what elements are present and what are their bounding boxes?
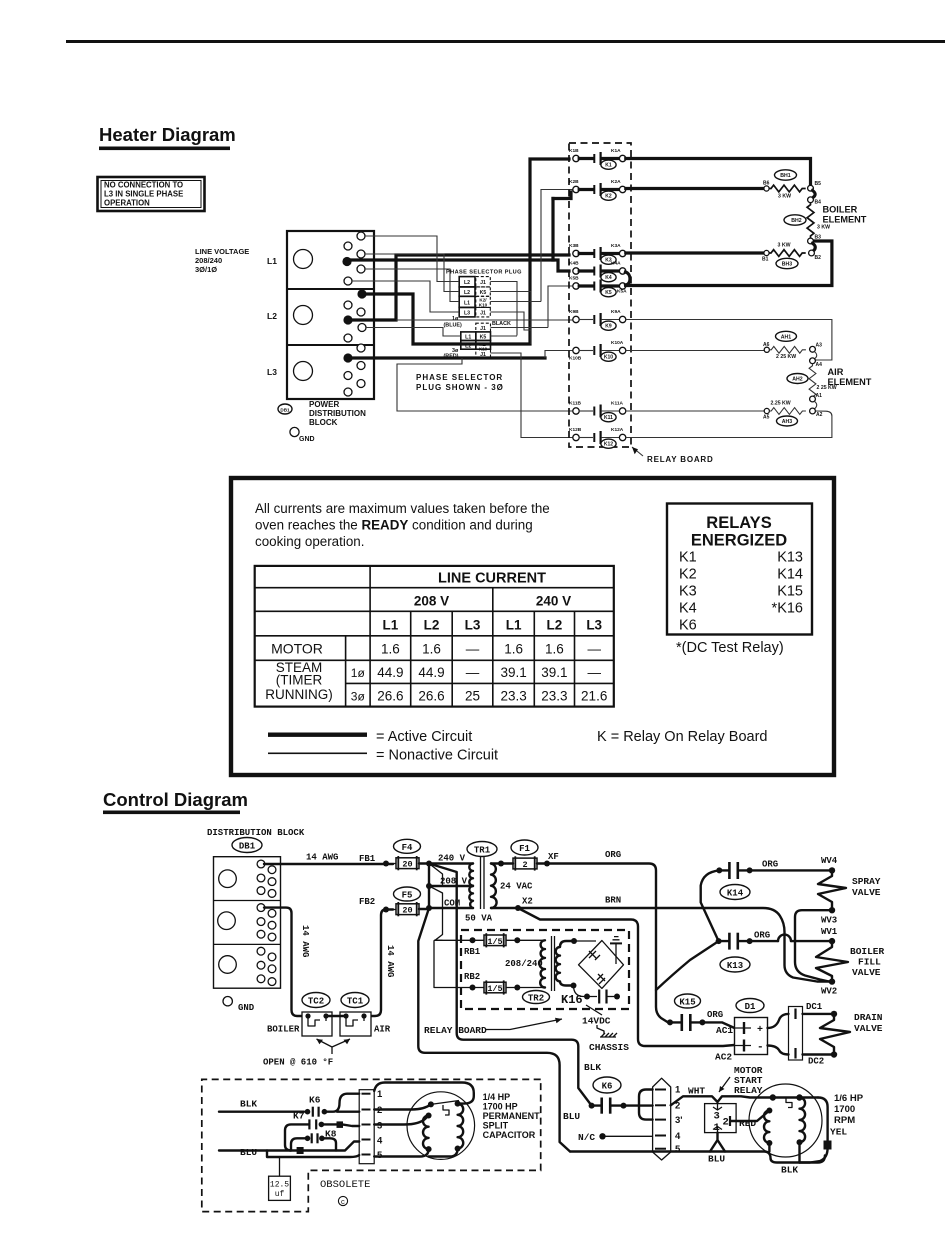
node B1	[764, 250, 769, 255]
svg-text:BLU: BLU	[708, 1154, 725, 1165]
svg-text:1ø: 1ø	[351, 666, 366, 680]
big framed table box	[231, 478, 834, 775]
svg-text:2: 2	[522, 860, 527, 870]
svg-text:K4B: K4B	[569, 261, 579, 267]
resistor AH3	[769, 401, 806, 427]
svg-text:K2A: K2A	[611, 179, 621, 185]
svg-text:-: -	[757, 1042, 764, 1054]
svg-text:L1: L1	[465, 335, 471, 341]
resistor AH2 vertical	[787, 364, 837, 401]
svg-text:K13: K13	[777, 550, 803, 566]
ground GND control	[223, 997, 255, 1014]
svg-text:RB1: RB1	[464, 947, 481, 957]
obsolete motor top loop	[374, 1083, 474, 1104]
fuse RB1	[464, 933, 545, 957]
svg-text:K10A: K10A	[611, 340, 624, 346]
svg-text:5: 5	[675, 1144, 681, 1155]
svg-text:K15: K15	[777, 584, 803, 600]
obsolete start winding	[423, 1113, 432, 1153]
jumper K4A to K5A thick arc	[626, 272, 631, 285]
junction FB2	[383, 907, 389, 913]
svg-text:DB1: DB1	[239, 842, 256, 852]
label boiler fill valve	[850, 946, 885, 978]
steam timer running label	[265, 660, 333, 702]
label 1/6 HP 1700 RPM	[834, 1093, 864, 1126]
node A3	[810, 346, 816, 352]
svg-text:—: —	[587, 642, 601, 657]
svg-text:3: 3	[377, 1121, 382, 1132]
svg-text:K9: K9	[605, 324, 612, 330]
svg-text:A3: A3	[816, 343, 823, 349]
obsolete blade and dot	[428, 1101, 459, 1116]
wire BLU obsolete with square to pin4	[219, 1142, 359, 1151]
resistor BH1	[769, 170, 806, 200]
wire X2 branch to AC2	[518, 908, 735, 1046]
run winding	[797, 1098, 806, 1146]
svg-text:L2: L2	[464, 280, 470, 286]
relays energized box	[667, 504, 812, 635]
svg-text:K13: K13	[727, 961, 743, 971]
svg-text:K5B: K5B	[569, 276, 579, 282]
node DC2	[831, 1051, 837, 1057]
jumper pins 1-3	[639, 1090, 653, 1120]
svg-text:208/240: 208/240	[195, 256, 222, 265]
svg-text:AIR: AIR	[374, 1025, 391, 1035]
svg-text:D1: D1	[745, 1002, 756, 1012]
wire K7 left drop	[285, 1124, 309, 1150]
relay contact K3	[569, 243, 626, 264]
svg-text:PHASE SELECTOR PLUG: PHASE SELECTOR PLUG	[446, 270, 522, 276]
svg-text:B3: B3	[815, 235, 822, 241]
svg-text:RPM: RPM	[834, 1115, 855, 1126]
svg-text:RELAY: RELAY	[734, 1085, 763, 1096]
svg-text:240 V: 240 V	[536, 594, 571, 609]
label spray valve	[852, 876, 881, 898]
svg-text:NO CONNECTION TO: NO CONNECTION TO	[104, 181, 183, 190]
svg-text:23.3: 23.3	[541, 689, 567, 704]
svg-text:F1: F1	[519, 844, 530, 854]
wire K12A thin return	[626, 411, 832, 438]
svg-text:K6: K6	[309, 1095, 321, 1106]
svg-text:2: 2	[723, 1117, 729, 1129]
relay K6 oval	[593, 1077, 621, 1093]
svg-text:DB1: DB1	[280, 407, 290, 412]
wire N/C to pin4	[603, 1135, 653, 1137]
svg-text:SPRAY: SPRAY	[852, 876, 881, 887]
node A5	[764, 408, 769, 413]
PDB terminal circles L3 section	[343, 344, 365, 396]
svg-text:L3: L3	[586, 618, 602, 633]
svg-text:*(DC Test Relay): *(DC Test Relay)	[676, 640, 784, 656]
wire K11A thin to A5	[626, 410, 765, 412]
BLU bottom bus	[570, 1152, 825, 1163]
svg-text:ORG: ORG	[754, 931, 770, 941]
svg-text:L1: L1	[383, 618, 399, 633]
motor start relay box	[705, 1104, 737, 1134]
node A1	[810, 396, 816, 402]
svg-text:K10: K10	[479, 347, 488, 352]
svg-text:K16: K16	[561, 993, 583, 1007]
svg-text:All currents are maximum value: All currents are maximum values taken be…	[255, 501, 550, 516]
leader K16 to 14VDC	[586, 1005, 602, 1015]
svg-text:1700 HP: 1700 HP	[483, 1102, 518, 1112]
wire K13 feed from ORG	[656, 941, 719, 990]
relay contact K12	[569, 427, 626, 448]
wire 208 tap to RB1	[429, 886, 470, 940]
svg-text:K5: K5	[605, 290, 612, 296]
svg-text:K2: K2	[679, 567, 697, 583]
fuse F5	[393, 887, 421, 916]
svg-text:MOTOR: MOTOR	[271, 641, 323, 657]
svg-text:39.1: 39.1	[500, 665, 526, 680]
svg-text:*K16: *K16	[772, 601, 803, 617]
relay K15 oval	[675, 994, 701, 1008]
svg-text:K4: K4	[679, 601, 697, 617]
svg-text:ELEMENT: ELEMENT	[828, 377, 872, 387]
svg-text:= Nonactive Circuit: = Nonactive Circuit	[376, 748, 498, 764]
svg-text:WV1: WV1	[821, 927, 838, 937]
svg-text:B5: B5	[815, 181, 822, 187]
label 3-phase red	[444, 348, 459, 360]
svg-text:20: 20	[402, 906, 412, 916]
svg-text:AH3: AH3	[782, 419, 792, 425]
svg-text:K11: K11	[604, 415, 613, 421]
phase selector plug upper connector J1	[459, 277, 490, 317]
svg-text:K1: K1	[679, 550, 697, 566]
label RELAY BOARD control with arrow	[424, 1018, 562, 1036]
bridge D1	[735, 999, 768, 1055]
svg-text:TR2: TR2	[528, 994, 544, 1004]
svg-text:DRAIN: DRAIN	[854, 1012, 883, 1023]
svg-text:ELEMENT: ELEMENT	[823, 215, 867, 225]
wire TC2 to TC1	[328, 1015, 344, 1017]
svg-text:K1A: K1A	[611, 148, 621, 154]
DB1 terminals section1	[257, 860, 276, 897]
svg-text:K1B: K1B	[569, 148, 579, 154]
node DC1	[831, 1011, 837, 1017]
note box: no connection to L3	[98, 177, 205, 211]
svg-text:(RED): (RED)	[444, 354, 459, 360]
wire lower plug right stubs (BLACK)	[491, 327, 549, 329]
node WV4	[829, 867, 835, 873]
relay contact K6 obsolete	[305, 1095, 328, 1117]
svg-text:J1: J1	[480, 326, 486, 332]
wire DC1 from D1	[768, 1014, 789, 1028]
svg-text:14VDC: 14VDC	[582, 1016, 611, 1027]
wire thin K2B feed	[541, 190, 573, 302]
wire K6 to pins 1 and 2	[324, 1094, 359, 1112]
svg-text:CHASSIS: CHASSIS	[589, 1042, 629, 1053]
relay contact K6 active	[589, 1098, 627, 1114]
filter capacitor on bridge	[610, 937, 622, 964]
wire K2B thick elbow	[553, 192, 571, 199]
svg-text:K10B: K10B	[569, 356, 582, 362]
resistor BH3	[769, 243, 806, 269]
svg-text:K4A: K4A	[611, 261, 621, 267]
wire A1-A2 link	[814, 401, 816, 409]
drain connector	[789, 1007, 803, 1061]
thermostat TC2	[302, 993, 332, 1037]
junction XF left	[498, 861, 504, 867]
svg-text:= Active Circuit: = Active Circuit	[376, 729, 472, 745]
wire K8 left to BLU	[291, 1138, 308, 1150]
wire BRN from X2 to valve common	[518, 908, 829, 982]
svg-text:AC1: AC1	[716, 1025, 733, 1036]
svg-text:TC1: TC1	[347, 997, 364, 1007]
svg-text:1/5: 1/5	[487, 937, 502, 947]
svg-text:24 VAC: 24 VAC	[500, 882, 533, 892]
svg-text:26.6: 26.6	[418, 689, 444, 704]
relay contact K5	[569, 276, 627, 297]
node B3	[808, 238, 814, 244]
svg-text:CAPACITOR: CAPACITOR	[483, 1130, 536, 1140]
svg-text:1.6: 1.6	[504, 642, 523, 657]
svg-text:VALVE: VALVE	[852, 967, 881, 978]
svg-text:DISTRIBUTION BLOCK: DISTRIBUTION BLOCK	[207, 828, 305, 838]
svg-text:1.6: 1.6	[422, 642, 441, 657]
motor top junctions	[770, 1094, 776, 1100]
wire DC2 from D1	[768, 1046, 789, 1055]
svg-text:4: 4	[675, 1131, 681, 1142]
wire L3 thick run	[352, 356, 545, 359]
obsolete motor circle	[407, 1092, 475, 1160]
svg-text:21.6: 21.6	[581, 689, 607, 704]
svg-text:ORG: ORG	[605, 850, 621, 860]
label 1-phase blue	[444, 316, 462, 329]
junction X2	[515, 905, 521, 911]
wire ORG main from XF to K15	[501, 864, 668, 1023]
svg-text:BOILER: BOILER	[823, 205, 858, 215]
wire 240 tap to RB2 riser	[429, 864, 470, 988]
svg-text:ENERGIZED: ENERGIZED	[691, 532, 787, 550]
junction 240V	[426, 861, 432, 867]
svg-text:BH1: BH1	[780, 173, 790, 179]
svg-text:A5: A5	[763, 415, 770, 421]
wire K6 to connector pin2	[624, 1104, 653, 1106]
distribution block DB1 outline	[214, 857, 281, 989]
svg-text:PERMANENT: PERMANENT	[483, 1111, 541, 1121]
wire K1A thick to B5 riser	[626, 159, 811, 186]
svg-text:N/C: N/C	[578, 1132, 595, 1143]
phase selector plug lower connector	[461, 323, 491, 358]
svg-text:PHASE SELECTOR: PHASE SELECTOR	[416, 373, 503, 382]
svg-text:Control Diagram: Control Diagram	[103, 789, 248, 810]
svg-text:240 V: 240 V	[438, 854, 466, 864]
svg-text:50 VA: 50 VA	[465, 914, 493, 924]
wire K14 feed	[701, 870, 720, 941]
fuse F1	[511, 840, 538, 871]
svg-text:AIR: AIR	[828, 367, 844, 377]
wire K13 to WV1	[752, 940, 829, 942]
wire A BLK riser from 240	[429, 864, 592, 1106]
DB1 terminals section3	[257, 947, 276, 985]
ground GND	[290, 427, 315, 443]
svg-text:14 AWG: 14 AWG	[385, 945, 395, 977]
svg-text:BLACK: BLACK	[492, 321, 511, 327]
svg-text:208/240: 208/240	[505, 959, 543, 969]
wire B BLU riser from COM	[418, 908, 570, 1152]
centrifugal switch hook	[786, 1098, 792, 1108]
wire B3-B2 link	[813, 243, 816, 250]
relay contact K7 obsolete	[293, 1111, 324, 1130]
svg-text:—: —	[466, 665, 480, 680]
svg-text:K5: K5	[480, 335, 487, 341]
wire K15 to AC1	[702, 1022, 734, 1028]
relay contact K1	[569, 148, 626, 169]
K16 rectifier coil secondary	[556, 938, 577, 989]
svg-text:26.6: 26.6	[377, 689, 403, 704]
pin labels 1-5	[675, 1085, 683, 1156]
relay contact K14	[716, 862, 752, 900]
svg-text:1.6: 1.6	[381, 642, 400, 657]
svg-text:K9B: K9B	[569, 309, 579, 315]
svg-text:208 V: 208 V	[414, 594, 449, 609]
node A2	[810, 408, 816, 414]
wire FB2 riser from TC1	[364, 910, 393, 1017]
svg-text:3ø: 3ø	[351, 690, 366, 704]
svg-text:44.9: 44.9	[418, 665, 444, 680]
label power distribution block	[309, 400, 366, 427]
wire thin K10B feed	[545, 351, 573, 359]
label line voltage	[195, 247, 249, 274]
svg-text:POWER: POWER	[309, 400, 339, 409]
drain valve coil	[820, 1014, 850, 1051]
svg-text:3Ø/1Ø: 3Ø/1Ø	[195, 265, 217, 274]
wire obsolete lower BLU branch to pin5	[267, 1151, 359, 1158]
svg-text:uf: uf	[275, 1190, 285, 1199]
svg-text:L2: L2	[267, 311, 277, 321]
wire A3-A4 link	[814, 352, 816, 359]
wire obsolete coil bottoms to pin5 line	[374, 1149, 457, 1157]
svg-text:L1: L1	[464, 300, 470, 306]
node A6	[764, 347, 769, 352]
node B6	[764, 186, 769, 191]
svg-text:1ø: 1ø	[452, 316, 459, 322]
svg-text:K6: K6	[602, 1082, 613, 1092]
svg-text:ORG: ORG	[707, 1010, 723, 1020]
svg-text:FB2: FB2	[359, 897, 375, 907]
svg-text:K9A: K9A	[611, 309, 621, 315]
svg-text:A1: A1	[816, 393, 823, 399]
svg-text:FILL: FILL	[858, 957, 881, 968]
svg-text:OBSOLETE: OBSOLETE	[320, 1179, 370, 1191]
node B2	[809, 250, 815, 256]
svg-text:14 AWG: 14 AWG	[300, 925, 310, 957]
svg-text:K2B: K2B	[569, 179, 579, 185]
wire run winding to bottom	[798, 1142, 800, 1162]
svg-text:K14: K14	[727, 889, 744, 899]
svg-text:K12: K12	[604, 442, 613, 448]
wire thick return B3 to K5A	[626, 241, 832, 286]
svg-text:—: —	[587, 665, 601, 680]
svg-text:L2: L2	[424, 618, 440, 633]
svg-text:K5: K5	[480, 290, 487, 296]
svg-text:L1: L1	[267, 256, 277, 266]
svg-text:K14: K14	[777, 567, 803, 583]
svg-text:3 KW: 3 KW	[817, 225, 830, 231]
svg-text:1700: 1700	[834, 1104, 855, 1115]
row MOTOR	[271, 641, 601, 657]
svg-text:BOILER: BOILER	[850, 946, 885, 957]
wire FB1 from DB1 to fuse F4	[264, 863, 393, 865]
svg-text:—: —	[466, 642, 480, 657]
svg-text:1/4 HP: 1/4 HP	[483, 1092, 511, 1102]
svg-text:SPLIT: SPLIT	[483, 1121, 509, 1131]
wire K14 to WV4	[752, 869, 829, 871]
svg-text:WHT: WHT	[688, 1086, 705, 1097]
transformer TR2	[523, 936, 555, 1004]
svg-text:BLU: BLU	[240, 1147, 257, 1158]
resistor BH2 vertical	[784, 203, 830, 240]
junction N/C	[599, 1133, 605, 1139]
svg-text:OPEN @ 610 °F: OPEN @ 610 °F	[263, 1058, 333, 1068]
svg-text:1/6 HP: 1/6 HP	[834, 1093, 864, 1104]
wire thin K9B long feed	[396, 319, 573, 321]
svg-text:cooking operation.: cooking operation.	[255, 534, 364, 549]
svg-text:K5A: K5A	[617, 289, 627, 295]
wire MSR pin1 to BLU bus	[710, 1133, 725, 1152]
wire K2B thick drop	[551, 199, 554, 261]
label phase selector plug shown	[416, 373, 504, 392]
designator DB1	[232, 838, 262, 853]
wire plug feeds lower plug left	[366, 328, 461, 337]
svg-text:RELAY BOARD: RELAY BOARD	[647, 455, 714, 464]
header L1 L2 L3 columns	[383, 618, 603, 633]
junction square K7 out	[337, 1121, 344, 1128]
wire K7 to pin3	[321, 1124, 359, 1126]
svg-text:Heater Diagram: Heater Diagram	[99, 124, 236, 145]
wire L2 lower thick riser to K3B	[352, 255, 569, 320]
svg-text:XF: XF	[548, 852, 559, 862]
obsolete connector strip	[359, 1090, 374, 1164]
relay contact K13	[716, 933, 753, 972]
svg-text:X2: X2	[522, 897, 533, 907]
svg-text:AH2: AH2	[792, 377, 802, 383]
svg-text:(TIMER: (TIMER	[276, 673, 323, 688]
svg-text:L3: L3	[464, 311, 470, 317]
svg-text:K6: K6	[679, 618, 697, 634]
node WV2	[829, 978, 835, 984]
svg-text:B2: B2	[815, 255, 822, 261]
svg-text:BLK: BLK	[781, 1165, 798, 1176]
legend active circuit	[268, 729, 472, 745]
svg-text:K10: K10	[479, 303, 488, 308]
wire to drain valve bottom	[803, 1053, 832, 1055]
svg-text:OPERATION: OPERATION	[104, 199, 150, 208]
svg-text:BRN: BRN	[605, 896, 621, 906]
svg-text:K12B: K12B	[569, 427, 582, 433]
PDB terminal circles L1 section	[342, 232, 365, 285]
relay contact K11	[569, 401, 626, 422]
svg-text:B6: B6	[763, 181, 770, 187]
label motor start relay with arrow	[719, 1065, 763, 1096]
obsolete run winding	[455, 1101, 464, 1152]
svg-text:WV4: WV4	[821, 856, 838, 866]
PDB terminal circles L2 section	[343, 289, 366, 342]
row STEAM 3ph	[351, 689, 608, 704]
label air element	[828, 367, 872, 387]
svg-text:3 KW: 3 KW	[778, 194, 791, 200]
svg-text:BH2: BH2	[791, 218, 801, 224]
svg-text:1.6: 1.6	[545, 642, 564, 657]
wire L1 thick feed to K4B	[351, 260, 569, 271]
svg-text:(BLUE): (BLUE)	[444, 323, 462, 329]
label 1/4 HP motor	[483, 1092, 541, 1140]
svg-text:12.5: 12.5	[270, 1181, 289, 1190]
svg-text:3: 3	[714, 1111, 720, 1123]
svg-text:c: c	[341, 1199, 345, 1207]
paragraph all currents	[255, 501, 550, 549]
